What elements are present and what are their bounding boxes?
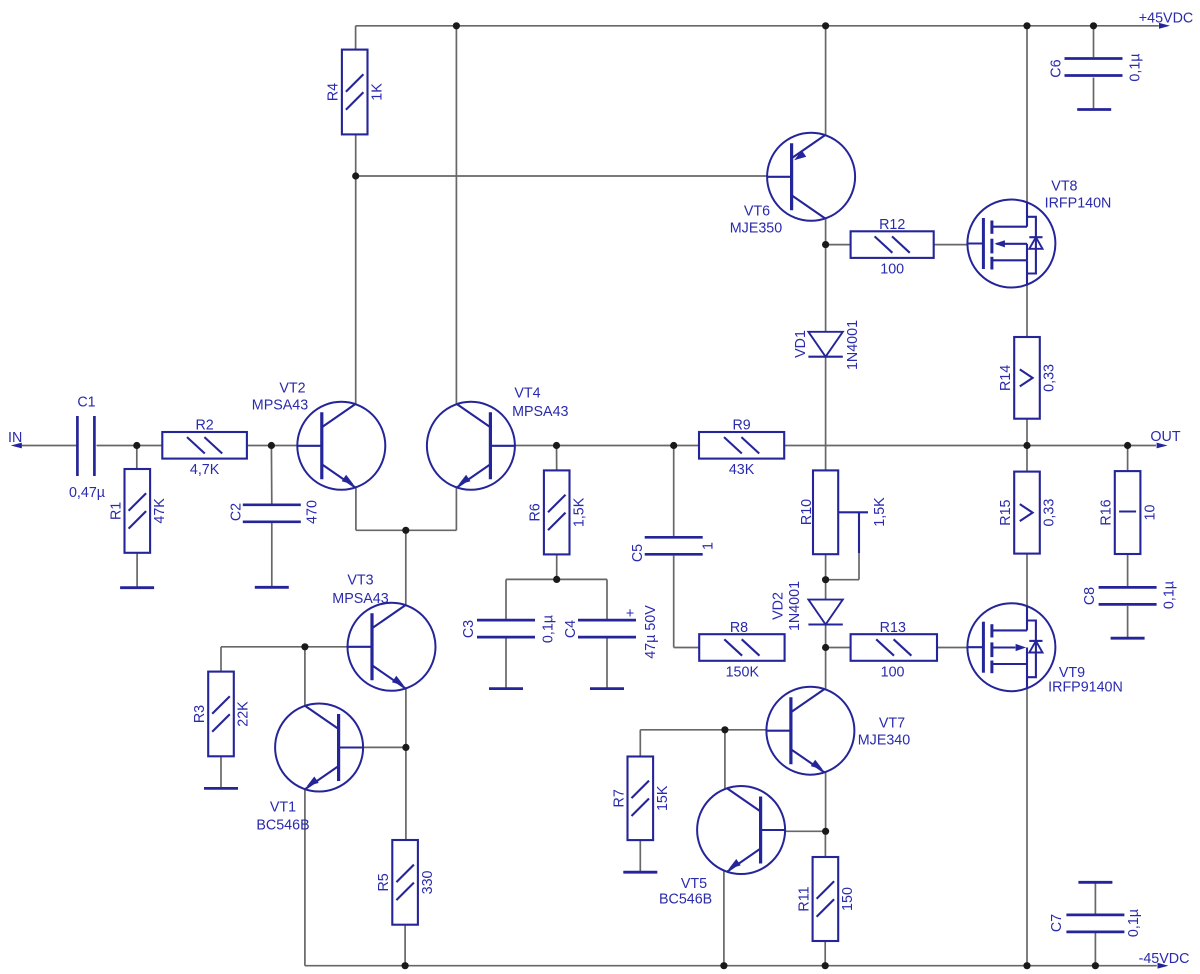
svg-text:R2: R2: [195, 418, 213, 434]
wire VT3 emitter to VT1 base: [405, 688, 407, 840]
svg-text:VT3: VT3: [347, 573, 373, 589]
wire node I to R11: [824, 831, 826, 857]
wire C6 to ground: [1093, 78, 1095, 110]
rail junction C6: [1090, 22, 1097, 29]
svg-text:R5: R5: [376, 873, 392, 891]
wire R2 to VT2 base: [247, 445, 298, 447]
svg-text:R4: R4: [326, 83, 342, 101]
svg-text:330: 330: [420, 870, 436, 894]
resistor R2: [162, 418, 247, 479]
wire R16 branch: [1127, 446, 1129, 472]
svg-text:10: 10: [1142, 505, 1158, 521]
capacitor C1: [69, 395, 105, 502]
svg-text:R12: R12: [879, 217, 905, 233]
wire C3 to ground: [505, 638, 507, 688]
port OUT: [1150, 429, 1180, 448]
capacitor C2: [228, 500, 320, 524]
svg-text:15K: 15K: [655, 785, 671, 811]
node G junction: [822, 241, 829, 248]
svg-text:IRFP9140N: IRFP9140N: [1048, 680, 1123, 696]
wire R7 branch: [640, 730, 725, 757]
node A junction: [133, 442, 140, 449]
diode VD1: [793, 320, 861, 370]
svg-text:R14: R14: [998, 365, 1014, 391]
svg-text:1: 1: [701, 542, 717, 550]
wire R15 to VT9: [1026, 554, 1028, 607]
svg-text:43K: 43K: [729, 462, 755, 478]
capacitor C3: [461, 615, 557, 643]
svg-text:C4: C4: [563, 620, 579, 638]
rail junction VT6: [822, 22, 829, 29]
capacitor C7: [1049, 909, 1142, 937]
bottom rail junction VT9: [1023, 962, 1030, 969]
resistor R9: [699, 418, 784, 479]
wire VT1 emitter to bottom rail: [305, 788, 1157, 965]
svg-text:R9: R9: [732, 418, 750, 434]
svg-text:150: 150: [840, 887, 856, 911]
wire VT6 emitter to rail: [825, 26, 827, 136]
power +45VDC: [1139, 11, 1193, 29]
wire node F down to C5: [673, 446, 675, 537]
svg-text:1,5K: 1,5K: [571, 497, 587, 527]
resistor R8: [699, 620, 784, 681]
resistor R6: [528, 470, 588, 554]
svg-text:VT8: VT8: [1051, 179, 1077, 195]
transistor VT6: [730, 133, 855, 237]
resistor R5: [376, 840, 436, 925]
svg-text:C5: C5: [630, 544, 646, 562]
svg-text:+45VDC: +45VDC: [1139, 11, 1193, 27]
svg-text:470: 470: [305, 500, 321, 524]
resistor R11: [796, 857, 856, 941]
bottom rail junction C7: [1092, 962, 1099, 969]
wire node H to VT7 collector: [825, 648, 827, 690]
wire C5 to R8: [674, 556, 700, 648]
mosfet VT9: [967, 603, 1122, 695]
resistor R3: [192, 672, 252, 757]
ground C7: [1078, 881, 1112, 884]
transistor VT3: [332, 573, 435, 691]
wire C6 branch: [1093, 26, 1095, 57]
wire C8 to ground: [1127, 606, 1129, 638]
bottom rail junction R11: [822, 962, 829, 969]
node D junction: [553, 442, 560, 449]
wire VT4 base to R9: [516, 445, 700, 447]
transistor VT7: [766, 687, 910, 775]
svg-text:MPSA43: MPSA43: [252, 398, 308, 414]
wire VT8 source to R14: [1026, 285, 1028, 337]
bottom rail junction R5: [402, 962, 409, 969]
wire R4 node to VT6 base: [356, 175, 768, 177]
wire R9 to OUT: [784, 445, 1156, 447]
svg-text:0,33: 0,33: [1042, 499, 1058, 527]
svg-text:VT4: VT4: [514, 386, 540, 402]
svg-text:0,47µ: 0,47µ: [69, 485, 105, 501]
svg-text:0,1µ: 0,1µ: [541, 615, 557, 643]
svg-text:47µ 50V: 47µ 50V: [643, 605, 659, 659]
wire R16 to C8: [1127, 554, 1129, 586]
svg-text:BC546B: BC546B: [256, 818, 309, 834]
ground C8: [1111, 637, 1145, 640]
svg-text:C1: C1: [77, 395, 95, 411]
svg-text:IRFP140N: IRFP140N: [1045, 196, 1112, 212]
svg-text:C7: C7: [1049, 914, 1065, 932]
capacitor C8: [1082, 581, 1177, 609]
node H junction: [822, 644, 829, 651]
ground R1: [120, 586, 154, 589]
svg-text:R1: R1: [108, 502, 124, 520]
wire node E to C3 C4: [506, 578, 607, 580]
wire R7 to ground: [639, 840, 641, 872]
svg-text:C3: C3: [461, 620, 477, 638]
wire C4 drop: [606, 579, 608, 619]
resistor R13: [851, 620, 937, 681]
svg-text:OUT: OUT: [1150, 429, 1180, 445]
rail junction VT8: [1023, 22, 1030, 29]
transistor VT2: [252, 381, 386, 490]
wire C1 to R2 through node A: [97, 445, 163, 447]
svg-text:MJE340: MJE340: [858, 733, 910, 749]
resistor R12: [851, 217, 934, 278]
capacitor C6: [1049, 53, 1144, 81]
svg-text:150K: 150K: [726, 664, 760, 680]
resistor R10 trimmer: [799, 470, 888, 554]
wire R12 lead: [826, 244, 851, 246]
ground C2: [255, 586, 289, 589]
capacitor C4: [563, 605, 659, 659]
svg-text:VD1: VD1: [793, 330, 809, 358]
R10 wiper junction: [822, 576, 829, 583]
svg-text:1N4001: 1N4001: [845, 320, 861, 370]
wire VT1 base lead: [363, 746, 406, 748]
diode VD2: [771, 581, 843, 631]
svg-text:R11: R11: [796, 886, 812, 911]
resistor R4: [326, 50, 386, 135]
svg-text:R15: R15: [998, 499, 1014, 525]
wire VT7 base junction: [725, 729, 767, 731]
resistor R15: [998, 472, 1058, 554]
svg-text:1K: 1K: [369, 83, 385, 101]
wire VD1 to R10: [825, 357, 827, 471]
wire IN to C1: [21, 445, 77, 447]
svg-text:0,1µ: 0,1µ: [1128, 53, 1144, 81]
svg-text:R7: R7: [611, 789, 627, 807]
wire VT7 emitter to node I: [825, 772, 827, 832]
wire C4 to ground: [606, 638, 608, 688]
wire VT3 base junction: [221, 647, 348, 672]
ground R7: [623, 871, 657, 874]
wire ground to C7: [1094, 882, 1096, 914]
wire R13 lead left: [826, 647, 851, 649]
wire OUT node to R15: [1026, 446, 1028, 472]
wire top rail: [356, 25, 1159, 27]
wire R6 to node E: [556, 554, 558, 579]
ground R3: [204, 787, 238, 790]
wire VT9 drain to bottom rail: [1026, 688, 1028, 965]
wire R1 to ground: [136, 553, 138, 588]
wire VT1 collector: [304, 647, 306, 707]
wire VT5 emitter to bottom rail: [723, 871, 725, 966]
wire R10 to VD2: [825, 554, 827, 599]
capacitor C5: [630, 537, 717, 562]
svg-text:R13: R13: [880, 620, 906, 636]
svg-text:R3: R3: [192, 705, 208, 723]
wire R3 to ground: [220, 756, 222, 788]
svg-text:1N4001: 1N4001: [787, 581, 803, 631]
svg-text:MPSA43: MPSA43: [332, 591, 388, 607]
resistor R1: [108, 469, 168, 553]
svg-text:-45VDC: -45VDC: [1139, 951, 1190, 967]
R4-VT6 node junction: [352, 172, 359, 179]
resistor R14: [998, 337, 1058, 419]
svg-text:VT7: VT7: [879, 716, 905, 732]
svg-text:IN: IN: [8, 430, 22, 446]
VT1 base junction: [402, 744, 409, 751]
svg-text:1,5K: 1,5K: [872, 497, 888, 527]
transistor VT5: [659, 786, 785, 908]
transistor VT4: [427, 386, 569, 490]
mosfet VT8: [967, 179, 1111, 288]
wire VT2 emitter to node C: [356, 487, 457, 531]
VT1 collector junction: [301, 643, 308, 650]
wire R4 top: [355, 26, 357, 50]
wire R5 to bottom rail: [404, 925, 406, 966]
svg-text:22K: 22K: [236, 701, 252, 727]
svg-text:0,1µ: 0,1µ: [1126, 909, 1142, 937]
svg-text:0,33: 0,33: [1042, 364, 1058, 392]
node E junction: [553, 576, 560, 583]
svg-text:R10: R10: [799, 499, 815, 525]
wire VT8 drain to rail: [1026, 26, 1028, 203]
rail junction VT4: [453, 22, 460, 29]
svg-text:R16: R16: [1099, 499, 1115, 525]
OUT node junction: [1023, 442, 1030, 449]
node F junction: [670, 442, 677, 449]
svg-text:47K: 47K: [152, 498, 168, 524]
wire VD2 to node H: [825, 624, 827, 648]
bottom rail junction VT5: [720, 962, 727, 969]
ground C3: [489, 687, 523, 690]
svg-text:100: 100: [880, 261, 904, 277]
svg-text:MJE350: MJE350: [730, 221, 782, 237]
wire R10 wiper down: [826, 553, 859, 580]
svg-text:VD2: VD2: [771, 592, 787, 620]
wire VT5 base lead: [785, 830, 825, 832]
svg-text:R8: R8: [730, 620, 748, 636]
resistor R7: [611, 757, 671, 841]
ground C6: [1077, 108, 1111, 111]
node I junction: [822, 828, 829, 835]
VT7 base junction: [721, 726, 728, 733]
svg-text:VT2: VT2: [279, 381, 305, 397]
port IN: [8, 430, 22, 449]
svg-text:C6: C6: [1049, 59, 1065, 77]
svg-text:VT5: VT5: [681, 876, 707, 892]
svg-text:C8: C8: [1082, 587, 1098, 605]
wire R13 to VT9 gate: [937, 647, 968, 649]
wire VT5 collector: [724, 730, 726, 789]
wire VT6 collector to node G: [825, 218, 827, 332]
wire R11 to bottom rail: [824, 941, 826, 966]
svg-text:+: +: [626, 606, 634, 622]
wire rail to VT4 collector: [455, 26, 457, 405]
ground C4: [590, 687, 624, 690]
svg-text:MPSA43: MPSA43: [512, 404, 568, 420]
resistor R16: [1099, 471, 1159, 554]
wire R4 bottom to VT2 collector: [355, 134, 357, 404]
svg-text:C2: C2: [228, 503, 244, 521]
svg-text:4,7K: 4,7K: [190, 462, 220, 478]
wire C7 to bottom rail: [1094, 933, 1096, 966]
svg-text:0,1µ: 0,1µ: [1162, 581, 1178, 609]
wire node B down to C2: [270, 446, 272, 505]
R16 node junction: [1124, 442, 1131, 449]
transistor VT1: [256, 704, 363, 834]
power -45VDC: [1139, 951, 1190, 969]
svg-text:VT1: VT1: [270, 800, 296, 816]
wire C2 to ground: [271, 522, 273, 587]
wire node D down to R6: [556, 446, 558, 471]
wire R12 to VT8 gate: [934, 244, 968, 246]
wire R14 to OUT node: [1026, 419, 1028, 446]
wire node A down to R1: [136, 446, 138, 470]
svg-text:R6: R6: [528, 503, 544, 521]
wire C3 drop: [505, 579, 507, 619]
wire node C down to VT3 collector: [405, 530, 407, 606]
svg-text:VT6: VT6: [744, 204, 770, 220]
node C junction: [402, 527, 409, 534]
svg-text:100: 100: [881, 664, 905, 680]
svg-text:BC546B: BC546B: [659, 892, 712, 908]
node B junction: [268, 442, 275, 449]
